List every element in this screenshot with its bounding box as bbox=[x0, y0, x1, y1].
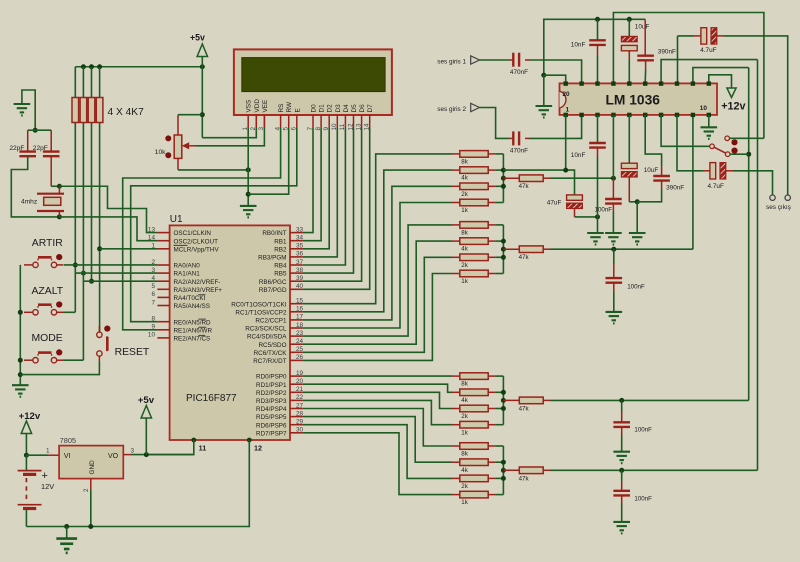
junction dot RA1 corner bbox=[81, 271, 86, 276]
svg-text:23: 23 bbox=[296, 330, 304, 337]
wire PIC to G2 1k bbox=[303, 274, 452, 361]
wire 470nF to LM pin19 bbox=[529, 60, 582, 83]
ground battery rail bbox=[56, 527, 77, 553]
svg-text:10: 10 bbox=[148, 332, 156, 339]
resistor G2 1k bbox=[452, 270, 495, 285]
svg-text:470nF: 470nF bbox=[510, 147, 528, 154]
wire 4.7uF left to LM pin13 bbox=[677, 36, 679, 84]
svg-text:20: 20 bbox=[563, 91, 571, 98]
LM1036 pin dots bbox=[564, 81, 712, 117]
wire G1 summing bus bbox=[502, 154, 504, 203]
capacitor 470nF input2 bbox=[509, 131, 529, 154]
junction dots G2 bus bbox=[501, 239, 506, 244]
ground 10nF bottom bbox=[587, 233, 604, 245]
svg-text:RB1: RB1 bbox=[274, 238, 287, 245]
svg-text:RC2/CCP1: RC2/CCP1 bbox=[255, 318, 287, 325]
resistor G4 8k bbox=[452, 443, 495, 458]
junction dot pin20 branch bbox=[541, 73, 546, 78]
wire branch to LM pin20 bbox=[544, 75, 566, 83]
svg-text:RA1/AN1: RA1/AN1 bbox=[174, 271, 201, 278]
svg-text:GND: GND bbox=[89, 460, 96, 475]
wire PIC to G3 1k bbox=[303, 400, 452, 424]
svg-text:4.7uF: 4.7uF bbox=[700, 47, 716, 54]
svg-text:22pF: 22pF bbox=[9, 145, 24, 152]
wire G3 2k to bus bbox=[495, 408, 503, 410]
wire LM pin7 to switch common bbox=[661, 115, 709, 146]
svg-text:4mhz: 4mhz bbox=[21, 198, 37, 205]
svg-text:RB4: RB4 bbox=[274, 263, 287, 270]
svg-text:RD4/PSP4: RD4/PSP4 bbox=[256, 406, 287, 413]
svg-text:PIC16F877: PIC16F877 bbox=[186, 393, 237, 404]
svg-text:36: 36 bbox=[296, 251, 304, 258]
wire G4 8k to bus bbox=[495, 445, 503, 447]
svg-text:+12v: +12v bbox=[721, 101, 745, 113]
ground LM pin10 bbox=[701, 127, 718, 139]
wire LM pin4 down bbox=[612, 115, 614, 178]
wire resistor column4 down to MCLR node and RESET bbox=[99, 123, 101, 333]
resistor G1 8k bbox=[452, 151, 495, 166]
capacitor 100nF on G2 output bbox=[606, 249, 645, 312]
svg-text:2k: 2k bbox=[461, 191, 468, 198]
resistor G3 1k bbox=[452, 421, 495, 436]
svg-text:3: 3 bbox=[258, 127, 265, 131]
wire LCD E pin6 to PIC RE0 bbox=[131, 128, 297, 322]
svg-text:ARTIR: ARTIR bbox=[32, 238, 63, 249]
wire G4 4k to bus bbox=[495, 461, 503, 463]
svg-text:RD6/PSP6: RD6/PSP6 bbox=[256, 422, 287, 429]
svg-text:30: 30 bbox=[296, 427, 304, 434]
capacitor 100nF on G1 output bbox=[595, 178, 622, 233]
resistor G4 4k bbox=[452, 459, 495, 474]
wire LM pin10 to ground bbox=[708, 115, 710, 127]
wire PIC to G4 8k bbox=[303, 409, 452, 447]
PIC bottom pin 12 bbox=[26, 438, 262, 527]
wire G1 2k to bus bbox=[495, 185, 503, 187]
svg-text:470nF: 470nF bbox=[510, 69, 528, 76]
wire 47uF bottom to 10nF2 column bbox=[575, 216, 598, 218]
svg-text:RC4/SDI/SDA: RC4/SDI/SDA bbox=[247, 334, 287, 341]
svg-text:8k: 8k bbox=[461, 451, 468, 458]
wires LCD data bus D0-D7 to PIC RB0-RB7 bbox=[303, 128, 370, 289]
wire 4.7uF2 right to ses cikis terminal1 bbox=[733, 171, 773, 195]
left ground rail bbox=[19, 265, 21, 385]
svg-text:ses giris 1: ses giris 1 bbox=[437, 59, 466, 66]
junction dot G4 output bbox=[619, 468, 624, 473]
svg-text:+12v: +12v bbox=[19, 411, 41, 422]
svg-text:MCLR/Vpp/THV: MCLR/Vpp/THV bbox=[174, 246, 220, 253]
svg-text:RA4/T0CKI: RA4/T0CKI bbox=[174, 295, 206, 302]
PIC right pin stubs with numbers and labels bbox=[231, 226, 303, 437]
wire G4 summing bus bbox=[502, 446, 504, 495]
svg-text:2k: 2k bbox=[461, 483, 468, 490]
wire VDD route to LCD pin2 bbox=[202, 128, 256, 138]
wire G3 8k to bus bbox=[495, 375, 503, 377]
svg-text:7805: 7805 bbox=[60, 436, 76, 445]
svg-text:390nF: 390nF bbox=[666, 185, 684, 192]
junction dot G2 output bbox=[611, 247, 616, 252]
svg-text:RD1/PSP1: RD1/PSP1 bbox=[256, 382, 287, 389]
svg-text:1k: 1k bbox=[461, 278, 468, 285]
svg-text:RD5/PSP5: RD5/PSP5 bbox=[256, 414, 287, 421]
wire LM pin17 to switch throw1 riser bbox=[613, 13, 764, 139]
power +12v battery bbox=[19, 411, 41, 455]
svg-text:RC5/SDO: RC5/SDO bbox=[259, 342, 287, 349]
junction dot +5v bbox=[144, 452, 149, 457]
PIC left pin stubs with numbers and labels bbox=[148, 226, 222, 342]
push button AZALT bbox=[24, 301, 64, 315]
svg-text:22pF: 22pF bbox=[33, 145, 48, 152]
svg-text:18: 18 bbox=[296, 322, 304, 329]
crystal X1 4mhz bbox=[21, 186, 64, 217]
junction dot RA0 bbox=[73, 263, 78, 268]
svg-text:MODE: MODE bbox=[32, 333, 63, 344]
wire PIC to G2 4k bbox=[303, 241, 452, 344]
wire pot wiper to LCD VEE pin3 bbox=[196, 128, 264, 146]
junction dots G3 bus bbox=[501, 390, 506, 395]
resistor G4 47k bbox=[503, 467, 550, 482]
wire G2 8k to bus bbox=[495, 224, 503, 226]
svg-text:14: 14 bbox=[148, 235, 156, 242]
junction dot VSS column pot bbox=[246, 167, 251, 172]
svg-text:RESET: RESET bbox=[115, 347, 150, 358]
wire G2 output to LM pin9 bbox=[551, 248, 693, 250]
svg-text:6: 6 bbox=[151, 291, 155, 298]
svg-text:D6: D6 bbox=[359, 104, 366, 113]
svg-text:21: 21 bbox=[296, 386, 304, 393]
svg-text:11: 11 bbox=[199, 444, 207, 453]
ground input bias bbox=[536, 106, 553, 118]
svg-text:RD7/PSP7: RD7/PSP7 bbox=[256, 430, 287, 437]
junction dot switch throw2 bbox=[746, 152, 751, 157]
wire to 22pF caps bbox=[28, 129, 36, 131]
svg-text:VEE: VEE bbox=[262, 100, 269, 113]
svg-text:RB5: RB5 bbox=[274, 271, 287, 278]
wire AZALT node to RA1 bbox=[75, 272, 157, 274]
svg-text:22: 22 bbox=[296, 394, 304, 401]
ground left rail bbox=[12, 385, 29, 397]
resistor pack RN1 4 X 4K7 bbox=[72, 67, 144, 123]
capacitor 4.7uF top polarized bbox=[678, 28, 725, 54]
resistor G2 4k bbox=[452, 238, 495, 253]
wire LCD VSS pin1 to ground bbox=[247, 128, 249, 206]
svg-text:RS: RS bbox=[278, 104, 285, 113]
push button ARTIR bbox=[24, 254, 64, 268]
potentiometer RV1 10k bbox=[155, 115, 203, 170]
input terminal ses giris 2 bbox=[437, 103, 509, 138]
wire G1 output to LM pin4 node bbox=[551, 177, 614, 179]
capacitor 100nF on G4 output bbox=[613, 470, 652, 522]
wire G3 riser to LM pin12 net bbox=[748, 68, 750, 401]
svg-text:24: 24 bbox=[296, 338, 304, 345]
resistor G4 1k bbox=[452, 491, 495, 506]
svg-text:D7: D7 bbox=[367, 104, 374, 113]
svg-text:47k: 47k bbox=[519, 254, 530, 261]
svg-text:100nF: 100nF bbox=[634, 496, 652, 503]
svg-text:4k: 4k bbox=[461, 397, 468, 404]
wire PIC to G3 4k bbox=[303, 384, 452, 392]
svg-text:D1: D1 bbox=[319, 104, 326, 113]
LCD display LCD1 bbox=[234, 49, 392, 115]
svg-text:RW: RW bbox=[286, 101, 293, 112]
wire +5v column down to LCD VDD route bbox=[201, 67, 203, 138]
svg-text:47k: 47k bbox=[519, 183, 530, 190]
resistor G1 2k bbox=[452, 183, 495, 198]
svg-text:1: 1 bbox=[46, 448, 50, 455]
svg-text:19: 19 bbox=[296, 370, 304, 377]
junction dot top net 10nF bbox=[595, 17, 600, 22]
svg-text:16: 16 bbox=[296, 306, 304, 313]
junction dot G1 output bbox=[611, 176, 616, 181]
output terminals ses cikis bbox=[766, 195, 791, 211]
wire PIC to G1 2k bbox=[303, 186, 452, 320]
svg-text:VI: VI bbox=[64, 453, 71, 460]
resistor G1 47k bbox=[503, 175, 550, 190]
wire crystal bottom to PIC OSC2 bbox=[59, 217, 157, 241]
svg-text:13: 13 bbox=[148, 226, 156, 233]
wire to 7805 VI bbox=[26, 454, 48, 456]
svg-text:4 X 4K7: 4 X 4K7 bbox=[108, 107, 145, 118]
svg-text:RE1/AN6/WR: RE1/AN6/WR bbox=[174, 327, 213, 334]
svg-text:+: + bbox=[42, 470, 48, 482]
svg-text:15: 15 bbox=[296, 298, 304, 305]
battery BT1 12V bbox=[18, 455, 55, 526]
svg-text:RC1/T1OSI/CCP2: RC1/T1OSI/CCP2 bbox=[235, 309, 287, 316]
wire ARTIR to RA0 bbox=[64, 264, 157, 266]
svg-text:40: 40 bbox=[296, 283, 304, 290]
wire resistor column3 down to RA2 node bbox=[91, 123, 93, 282]
svg-text:RA5/AN4/SS: RA5/AN4/SS bbox=[174, 303, 210, 310]
svg-text:1k: 1k bbox=[461, 429, 468, 436]
svg-text:26: 26 bbox=[296, 354, 304, 361]
wire switch throw1 bbox=[730, 137, 764, 139]
wire G3 4k to bus bbox=[495, 391, 503, 393]
wire MCLR node to PIC pin1 bbox=[100, 248, 158, 250]
wire G4 2k to bus bbox=[495, 477, 503, 479]
svg-text:D3: D3 bbox=[335, 104, 342, 113]
ground mid caps bbox=[629, 233, 646, 245]
svg-text:10uF: 10uF bbox=[644, 167, 659, 174]
svg-text:RE0/AN5/RD: RE0/AN5/RD bbox=[174, 319, 212, 326]
wire G3 output to switch node bbox=[551, 399, 749, 401]
wire PIC to G3 2k bbox=[303, 392, 452, 408]
ground LCD VSS bbox=[240, 206, 257, 218]
wire PIC to G2 8k bbox=[303, 225, 452, 336]
svg-text:8k: 8k bbox=[461, 381, 468, 388]
resistor G1 1k bbox=[452, 199, 495, 214]
wire G2 1k to bus bbox=[495, 273, 503, 275]
tone control IC U3 LM1036 bbox=[560, 83, 718, 115]
junction dots G1 bus bbox=[501, 168, 506, 173]
svg-text:5: 5 bbox=[151, 283, 155, 290]
svg-text:9: 9 bbox=[151, 324, 155, 331]
power +5v top bbox=[190, 33, 208, 67]
svg-text:RD2/PSP2: RD2/PSP2 bbox=[256, 390, 287, 397]
svg-text:37: 37 bbox=[296, 259, 304, 266]
resistor G2 8k bbox=[452, 222, 495, 237]
microcontroller U1 PIC16F877 bbox=[170, 214, 290, 440]
svg-text:38: 38 bbox=[296, 267, 304, 274]
svg-text:2k: 2k bbox=[461, 413, 468, 420]
wire G2 4k to bus bbox=[495, 240, 503, 242]
svg-text:D2: D2 bbox=[327, 104, 334, 113]
svg-text:1k: 1k bbox=[461, 207, 468, 214]
svg-text:E: E bbox=[294, 108, 301, 112]
capacitor 470nF input1 bbox=[509, 53, 529, 76]
capacitor 10uF bottom polarized bbox=[621, 115, 658, 202]
wire PIC to G4 4k bbox=[303, 417, 452, 463]
resistor G2 47k bbox=[503, 246, 550, 261]
svg-text:OSC2/CLKOUT: OSC2/CLKOUT bbox=[174, 238, 219, 245]
resistor G2 2k bbox=[452, 254, 495, 269]
wire down to ground input bbox=[543, 75, 545, 106]
wire PIC to G4 1k bbox=[303, 433, 452, 495]
junction dot RW-gnd bbox=[246, 192, 251, 197]
svg-text:D5: D5 bbox=[351, 104, 358, 113]
wire G4 output to pin14 net riser bbox=[551, 469, 758, 471]
junction dot RA2 bbox=[89, 279, 94, 284]
resistor G1 4k bbox=[452, 167, 495, 182]
wire MODE node to RA2 bbox=[83, 280, 157, 282]
wire switch throw2 to G3 node bbox=[730, 153, 749, 155]
wire LM pin14 to G4 riser bbox=[661, 60, 757, 84]
svg-text:RA3/AN3/VREF+: RA3/AN3/VREF+ bbox=[174, 287, 223, 294]
wire mid caps to ground bbox=[636, 202, 638, 233]
svg-text:2k: 2k bbox=[461, 262, 468, 269]
svg-text:ses giris 2: ses giris 2 bbox=[437, 106, 466, 113]
svg-text:RD0/PSP0: RD0/PSP0 bbox=[256, 374, 287, 381]
svg-text:47uF: 47uF bbox=[547, 200, 562, 207]
junction dot crystal top bbox=[57, 184, 62, 189]
push button RESET bbox=[97, 326, 150, 359]
svg-text:7: 7 bbox=[151, 299, 155, 306]
junction dots bottom rail bbox=[64, 524, 69, 529]
svg-text:39: 39 bbox=[296, 275, 304, 282]
svg-text:U1: U1 bbox=[170, 214, 183, 225]
wire G3 summing bus bbox=[502, 376, 504, 425]
wire LM pin9 riser bbox=[692, 115, 694, 249]
svg-text:RB2: RB2 bbox=[274, 246, 287, 253]
wire PIC to G2 2k bbox=[303, 257, 452, 352]
svg-text:4k: 4k bbox=[461, 175, 468, 182]
svg-text:VO: VO bbox=[108, 453, 119, 460]
wire G1 8k to bus bbox=[495, 153, 503, 155]
wire PIC to G3 8k bbox=[303, 375, 452, 377]
capacitor 390nF top bbox=[637, 19, 676, 83]
ground 100nF G4 bbox=[613, 522, 630, 534]
junction dots on +5v rail bbox=[81, 64, 86, 69]
svg-text:8k: 8k bbox=[461, 159, 468, 166]
ground 100nF G1 bbox=[605, 233, 622, 245]
wire crystal top to PIC OSC1 bbox=[59, 186, 157, 232]
resistor G3 47k bbox=[503, 397, 550, 412]
capacitor 10uF top polarized bbox=[621, 19, 649, 83]
wire AZALT button to riser bbox=[64, 311, 76, 313]
junction dot pin1 node bbox=[563, 168, 568, 173]
junction dot 47uF bottom bbox=[595, 214, 600, 219]
svg-text:35: 35 bbox=[296, 243, 304, 250]
svg-text:8: 8 bbox=[151, 316, 155, 323]
svg-text:12: 12 bbox=[254, 444, 262, 453]
wire C1 bottom to crystal bottom node bbox=[11, 156, 59, 217]
svg-text:RA0/AN0: RA0/AN0 bbox=[174, 263, 201, 270]
capacitor 100nF on G3 output bbox=[613, 400, 652, 451]
svg-text:RD3/PSP3: RD3/PSP3 bbox=[256, 398, 287, 405]
svg-text:AZALT: AZALT bbox=[32, 286, 64, 297]
svg-text:OSC1/CLKIN: OSC1/CLKIN bbox=[174, 230, 212, 237]
power +5v regulator bbox=[138, 395, 155, 455]
wire 7805 VO to +5v and PIC pin11 bbox=[123, 454, 131, 456]
resistor G3 4k bbox=[452, 389, 495, 404]
wire PIC to G4 2k bbox=[303, 425, 452, 479]
wire MODE button to riser bbox=[64, 359, 84, 361]
PIC left label overlines bbox=[174, 245, 207, 335]
wire LM pin1 to 47uF and G1 r2 bus bbox=[503, 115, 574, 195]
svg-text:RB6/PGC: RB6/PGC bbox=[259, 279, 287, 286]
ground top-left bbox=[14, 90, 36, 130]
wire G2 2k to bus bbox=[495, 256, 503, 258]
wire LM pin12 to G3 riser bbox=[693, 68, 749, 84]
input terminal ses giris 1 bbox=[437, 56, 509, 66]
svg-text:D0: D0 bbox=[311, 104, 318, 113]
resistor G4 2k bbox=[452, 475, 495, 490]
wire PIC to G1 4k bbox=[303, 170, 452, 312]
svg-text:27: 27 bbox=[296, 402, 304, 409]
junction dot mid caps bbox=[635, 199, 640, 204]
PIC bottom pin 11 bbox=[146, 438, 206, 455]
svg-text:VSS: VSS bbox=[246, 100, 253, 113]
svg-text:390nF: 390nF bbox=[658, 49, 676, 56]
svg-text:100nF: 100nF bbox=[627, 284, 645, 291]
junction dots G4 bus bbox=[501, 460, 506, 465]
svg-text:RC3/SCK/SCL: RC3/SCK/SCL bbox=[245, 326, 287, 333]
push button MODE bbox=[24, 349, 64, 363]
junction dot top net 10uF bbox=[627, 17, 632, 22]
svg-text:4.7uF: 4.7uF bbox=[708, 183, 724, 190]
regulator U2 7805 bbox=[46, 436, 135, 492]
svg-text:LM 1036: LM 1036 bbox=[606, 93, 661, 108]
junction dot VI bbox=[24, 453, 29, 458]
svg-text:10uF: 10uF bbox=[635, 24, 650, 31]
svg-text:17: 17 bbox=[296, 314, 304, 321]
svg-text:28: 28 bbox=[296, 410, 304, 417]
wire C2 bottom to crystal top node bbox=[50, 156, 52, 186]
capacitor 390nF bottom bbox=[637, 115, 684, 202]
junction dot G3 output bbox=[619, 398, 624, 403]
svg-text:47k: 47k bbox=[519, 405, 530, 412]
capacitor 47uF polarized bbox=[547, 195, 583, 217]
wire 7805 GND pin2 to rail bbox=[90, 479, 92, 527]
junction dot caps top bbox=[33, 128, 38, 133]
capacitor C1 22pF bbox=[9, 145, 36, 156]
svg-text:RB3/PGM: RB3/PGM bbox=[258, 255, 286, 262]
capacitor 10nF top bbox=[571, 19, 606, 83]
resistor G3 2k bbox=[452, 405, 495, 420]
svg-text:20: 20 bbox=[296, 378, 304, 385]
wire G2 summing bus bbox=[502, 225, 504, 274]
power +12v LM bbox=[709, 75, 746, 113]
svg-text:RC6/TX/CK: RC6/TX/CK bbox=[254, 350, 288, 357]
capacitor C2 22pF bbox=[33, 145, 60, 156]
wire top +5v rail to resistor pack bbox=[75, 66, 202, 68]
svg-text:RA2/AN2/VREF-: RA2/AN2/VREF- bbox=[174, 279, 221, 286]
svg-text:VDD: VDD bbox=[254, 99, 261, 113]
capacitor 10nF bottom bbox=[571, 115, 606, 233]
svg-text:10nF: 10nF bbox=[571, 42, 586, 49]
wire PIC to G1 8k bbox=[303, 154, 452, 304]
capacitor 4.7uF bottom polarized bbox=[703, 163, 733, 190]
wire 4.7uF2 left to LM pin8 bbox=[677, 115, 703, 171]
wire pot bottom to LCD VSS column bbox=[178, 169, 248, 171]
